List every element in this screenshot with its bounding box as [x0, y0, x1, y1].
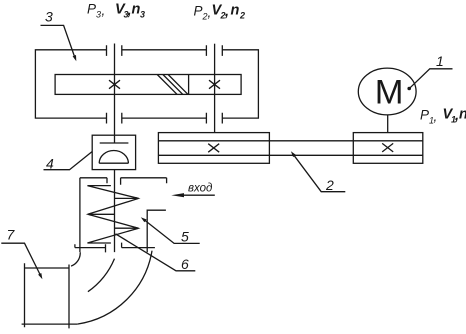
screw casing top line right — [121, 178, 167, 185]
coupling box 4 — [92, 135, 135, 169]
svg-text:,: , — [224, 4, 229, 20]
svg-text:n: n — [231, 3, 240, 19]
X mark shaft B gear — [209, 80, 220, 89]
label 6 with leader — [116, 234, 196, 272]
svg-text:2: 2 — [325, 177, 334, 193]
svg-text:n: n — [459, 107, 466, 123]
bearing ticks bottom shaft A — [107, 113, 122, 124]
svg-text:,: , — [434, 109, 438, 124]
bottom flange bracket right — [122, 243, 155, 248]
elbow inner arc — [71, 252, 80, 266]
label 3 with leader — [41, 9, 77, 62]
bearing ticks top shaft A — [107, 45, 122, 56]
hatched gear section — [157, 75, 188, 95]
gearbox housing 3 outline — [35, 50, 258, 118]
svg-text:,: , — [102, 3, 106, 18]
motor M circle — [358, 68, 416, 115]
motor shaft — [387, 115, 389, 133]
label 7 with leader — [1, 227, 42, 280]
svg-text:3: 3 — [45, 9, 53, 25]
label P1 w1 — [420, 107, 466, 126]
screw casing top line left — [80, 178, 107, 184]
X mark left pulley — [208, 144, 219, 153]
belt bar lines — [158, 141, 422, 156]
label 5 with leader — [141, 217, 200, 244]
svg-text:5: 5 — [181, 229, 189, 245]
svg-text:6: 6 — [181, 256, 189, 272]
svg-text:7: 7 — [7, 227, 16, 243]
shaft B vertical — [214, 44, 216, 133]
svg-text:3: 3 — [96, 10, 101, 20]
svg-text:P: P — [87, 2, 96, 17]
inlet arrow vhod — [171, 183, 215, 198]
svg-text:2: 2 — [239, 11, 245, 21]
belt drive 2: right pulley block — [353, 133, 423, 164]
label 4 with leader — [44, 152, 93, 172]
X mark shaft A gear — [109, 80, 120, 89]
bottom flange bracket left — [75, 244, 106, 252]
svg-text:3: 3 — [140, 10, 145, 20]
svg-text:P: P — [194, 4, 203, 19]
label 2 with leader — [291, 151, 345, 193]
X mark right pulley — [382, 143, 393, 152]
belt drive 2: left pulley block — [158, 133, 269, 164]
shaft A vertical — [114, 44, 116, 253]
svg-text:P: P — [420, 108, 429, 123]
svg-text:M: M — [375, 74, 404, 112]
screw flight zigzag — [86, 186, 141, 243]
elbow middle arc — [88, 259, 115, 292]
label 1 with leader and dot — [407, 53, 452, 90]
svg-text:вход: вход — [188, 183, 212, 195]
label P3 w3 n3 — [87, 2, 145, 20]
label P2 w2 n2 — [194, 3, 246, 22]
svg-text:1: 1 — [436, 53, 444, 69]
inlet channel corner — [147, 210, 166, 252]
screw casing left rail — [79, 178, 81, 252]
gear bar inside gearbox — [55, 75, 241, 95]
bearing ticks bottom shaft B — [206, 113, 222, 124]
bearing ticks top shaft B — [206, 45, 222, 56]
elbow outlet rect — [22, 263, 78, 328]
elbow outer arc — [77, 251, 152, 324]
